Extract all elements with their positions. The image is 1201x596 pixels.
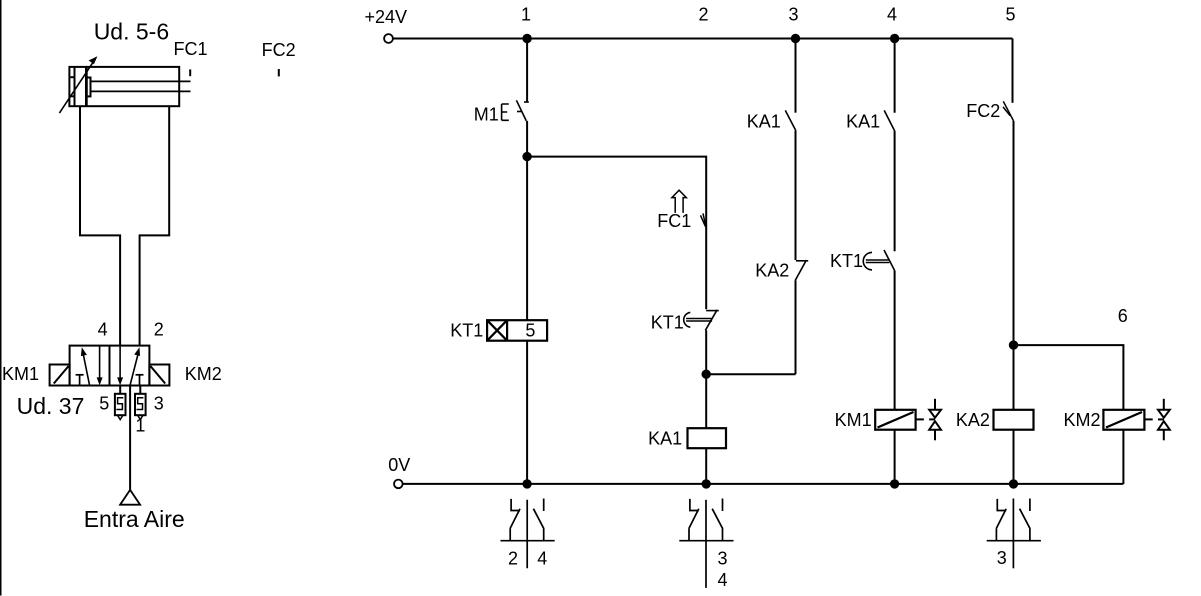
wire col2 lower — [705, 330, 707, 428]
cross-reference contacts below col1 — [501, 499, 555, 569]
contact FC2 NO limit switch — [1003, 101, 1014, 121]
FC2 position tick — [278, 69, 280, 76]
svg-text:0V: 0V — [388, 455, 410, 475]
contact KA1 NO (col3) — [785, 110, 796, 130]
node rail-col4 — [890, 34, 899, 43]
solenoid coil KM1 — [875, 410, 915, 430]
svg-text:3: 3 — [717, 549, 727, 569]
svg-text:5: 5 — [1005, 5, 1015, 25]
svg-text:2: 2 — [508, 549, 518, 569]
node col1 branch — [522, 152, 531, 161]
node col5 branch — [1009, 340, 1018, 349]
svg-text:2: 2 — [698, 5, 708, 25]
contact KA2 NC (col3) — [795, 260, 808, 281]
+24V rail — [393, 38, 1013, 40]
svg-text:4: 4 — [537, 549, 547, 569]
svg-text:4: 4 — [887, 5, 897, 25]
node 0V-col2 — [702, 479, 711, 488]
svg-text:+24V: +24V — [365, 7, 408, 27]
solenoid coil KM2 — [1103, 410, 1144, 430]
svg-text:FC1: FC1 — [174, 39, 208, 59]
cross-reference contacts below col5 — [987, 499, 1041, 569]
wire col4 upper — [894, 39, 896, 113]
wire KM1 coil to 0V — [894, 430, 896, 484]
silencer at port 5 — [115, 386, 126, 420]
timer relay KT1 box — [487, 320, 547, 341]
actuation arrow FC1 — [672, 190, 686, 213]
wire branch col2 to col3 — [706, 373, 795, 375]
wire col1 upper — [526, 39, 528, 103]
svg-text:4: 4 — [98, 319, 108, 339]
svg-text:KM2: KM2 — [1064, 410, 1101, 430]
valve right box blocked port 3 (T) — [136, 375, 144, 386]
wire col4 middle — [894, 131, 896, 251]
cross-reference contacts below col2 — [679, 499, 733, 588]
+24V terminal — [384, 34, 393, 43]
svg-text:KT1: KT1 — [651, 313, 684, 333]
svg-text:1: 1 — [521, 5, 531, 25]
svg-text:FC2: FC2 — [262, 40, 296, 60]
contact KT1 delayed NO (col4) — [863, 250, 894, 271]
cylinder piston rod — [91, 81, 191, 91]
0V terminal — [394, 480, 403, 489]
supply line to port 1 — [129, 386, 131, 490]
node 0V-col1 — [522, 479, 531, 488]
contact FC1 (closed limit switch chevron) — [701, 213, 707, 228]
relay coil KA2 — [994, 410, 1034, 430]
node 0V-col4 — [890, 479, 899, 488]
wire col3 lower — [795, 281, 797, 375]
relay coil KA1 — [688, 428, 727, 448]
svg-text:KA2: KA2 — [956, 410, 990, 430]
svg-text:5: 5 — [525, 321, 535, 341]
svg-text:3: 3 — [788, 5, 798, 25]
svg-text:KA1: KA1 — [846, 112, 880, 132]
wire branch col1 to col2 — [527, 157, 706, 310]
wire branch col5 to col6 — [1014, 345, 1124, 410]
wire col5 from rail — [1012, 39, 1014, 103]
tube from cylinder left port to valve port 4 — [80, 106, 120, 345]
svg-text:Ud. 5-6: Ud. 5-6 — [94, 19, 169, 45]
valve link symbol at KM1 — [916, 399, 941, 441]
wire col4 lower — [894, 271, 896, 410]
wire KM2 coil to 0V rail — [1122, 430, 1124, 484]
svg-text:FC1: FC1 — [657, 211, 691, 231]
valve left box blocked port 5 (T) — [76, 375, 84, 386]
valve left box arrow 1-4 — [81, 347, 90, 385]
node rail-col1 — [522, 34, 531, 43]
svg-text:KA1: KA1 — [648, 429, 682, 449]
valve 5/2 body — [70, 346, 150, 386]
svg-text:KT1: KT1 — [450, 321, 483, 341]
wire col5 middle — [1013, 121, 1015, 410]
svg-text:Entra Aire: Entra Aire — [84, 506, 185, 532]
cylinder body — [69, 67, 179, 106]
wire col3 upper — [795, 39, 797, 113]
wire col3 middle — [795, 131, 797, 260]
contact KA1 NO (col4) — [884, 110, 894, 130]
cylinder piston — [85, 67, 88, 106]
solenoid KM2 (valve right) — [149, 365, 169, 386]
contact M1 (NO pushbutton) — [502, 100, 529, 121]
valve left box arrow 2-3 — [97, 346, 103, 386]
cylinder rod flange — [87, 78, 91, 97]
valve right box arrow 4-5 — [117, 346, 123, 386]
FC1 position tick — [189, 69, 191, 76]
svg-text:3: 3 — [997, 548, 1007, 568]
svg-text:3: 3 — [154, 393, 164, 413]
contact KT1 delayed NC (col2) — [684, 310, 719, 331]
wire col1 lower — [526, 121, 528, 320]
wire KA2 coil to 0V — [1013, 430, 1015, 484]
tube from cylinder right port to valve port 2 — [140, 106, 170, 345]
adjustable cushioning arrow — [59, 56, 97, 113]
node col2-col3 join — [702, 370, 711, 379]
valve right box arrow 1-2 — [130, 347, 140, 385]
node rail-col3 — [791, 34, 800, 43]
svg-text:5: 5 — [99, 393, 109, 413]
svg-text:4: 4 — [717, 570, 727, 590]
svg-text:KM2: KM2 — [185, 364, 222, 384]
svg-text:M1: M1 — [474, 105, 499, 125]
svg-text:6: 6 — [1118, 306, 1128, 326]
silencer at port 3 — [135, 386, 146, 420]
solenoid KM1 (valve left) — [50, 365, 70, 386]
wire KA1 coil to 0V — [705, 448, 707, 484]
svg-text:FC2: FC2 — [966, 101, 1000, 121]
svg-text:Ud. 37: Ud. 37 — [17, 393, 85, 419]
svg-text:KA2: KA2 — [755, 261, 789, 281]
svg-text:KA1: KA1 — [747, 112, 781, 132]
node 0V-col5 — [1009, 479, 1018, 488]
valve link symbol at KM2 — [1145, 399, 1170, 441]
svg-text:KT1: KT1 — [830, 251, 863, 271]
svg-text:KM1: KM1 — [2, 364, 39, 384]
svg-text:KM1: KM1 — [835, 410, 872, 430]
air source triangle — [120, 490, 140, 505]
wire KT1 box to 0V — [526, 341, 528, 484]
svg-text:2: 2 — [154, 319, 164, 339]
0V rail — [402, 483, 1123, 485]
